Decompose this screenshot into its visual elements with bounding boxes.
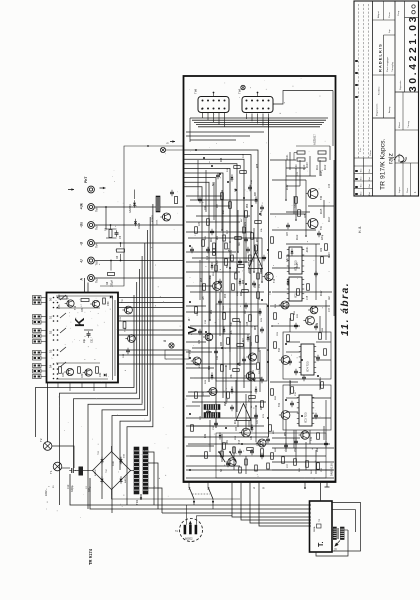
transformer TR1 secondary wires: [148, 452, 162, 513]
svg-text:KA202: KA202: [124, 476, 127, 483]
styroflex capacitors: [200, 405, 220, 421]
svg-text:51: 51: [49, 315, 53, 319]
svg-text:R A D E L K I S: R A D E L K I S: [378, 44, 383, 72]
svg-text:R21: R21: [253, 369, 255, 374]
svg-text:C21: C21: [257, 419, 259, 424]
svg-text:20p: 20p: [83, 338, 86, 343]
lamp T2: [39, 438, 52, 450]
sub-board box amplifier: [216, 304, 267, 381]
svg-text:C17: C17: [227, 229, 229, 234]
bus under connectors: [190, 118, 328, 142]
svg-text:Tb6: Tb6: [95, 207, 99, 212]
svg-text:T14: T14: [209, 274, 212, 279]
transistor T17: [238, 428, 250, 444]
Tl2 wires: [316, 482, 361, 556]
svg-text:C34: C34: [255, 283, 257, 288]
pin stubs below board: [252, 482, 330, 489]
connector Tb9: [238, 88, 274, 112]
svg-text:C65: C65: [305, 213, 307, 218]
svg-text:Ossz.: Ossz.: [407, 187, 409, 193]
transistor T12b outside board: [125, 327, 135, 342]
switch row labels S6 S1 S2 S3 S4: [49, 297, 53, 368]
svg-text:rajz: rajz: [388, 152, 395, 164]
svg-text:Tb8: Tb8: [194, 88, 198, 94]
svg-text:TR 917/K Kapcs.: TR 917/K Kapcs.: [380, 139, 387, 190]
transistor T14: [209, 274, 221, 290]
svg-text:56: 56: [49, 297, 53, 301]
wire stubs below K box: [58, 383, 106, 392]
extra wires V region: [186, 132, 264, 466]
svg-text:R38: R38: [257, 163, 259, 168]
svg-text:Dat.: Dat.: [368, 176, 371, 180]
svg-text:R79: R79: [81, 373, 84, 378]
transformer box Tl2: [310, 501, 333, 552]
svg-text:Terv.: Terv.: [361, 176, 363, 181]
svg-text:R26: R26: [243, 279, 245, 284]
opamp IC5: [247, 246, 263, 274]
svg-text:Tb9: Tb9: [238, 88, 242, 94]
svg-text:R123: R123: [329, 252, 331, 258]
svg-text:-U: -U: [80, 259, 84, 263]
svg-text:T24: T24: [278, 347, 281, 352]
svg-text:3B3A: 3B3A: [313, 526, 316, 532]
svg-text:0.47: 0.47: [287, 257, 289, 262]
svg-text:K: K: [72, 317, 87, 327]
sub-board box output stage: [216, 433, 326, 478]
svg-text:2: 2: [175, 530, 179, 532]
svg-text:R107: R107: [287, 184, 289, 190]
svg-text:C52: C52: [99, 372, 102, 377]
middle scatter resistors: [191, 166, 328, 470]
svg-text:R81: R81: [285, 431, 287, 436]
transistor T18: [279, 301, 289, 309]
transistor T26: [303, 316, 319, 327]
capacitor C12 3300u: [62, 462, 76, 492]
svg-text:C67: C67: [287, 231, 289, 236]
svg-text:-Us: -Us: [80, 222, 84, 228]
svg-text:T1: T1: [49, 470, 53, 474]
svg-text:C41: C41: [251, 435, 253, 440]
drawing number 30.4221.03: [395, 1, 419, 92]
svg-text:M: M: [200, 108, 204, 110]
terminal Tb4 -U: [80, 240, 184, 248]
transistor T16: [244, 372, 257, 382]
svg-text:H. 8.: H. 8.: [358, 226, 362, 233]
svg-text:R111: R111: [317, 164, 319, 170]
svg-text:R48: R48: [241, 291, 243, 296]
svg-text:OA85: OA85: [138, 222, 141, 229]
scan speckle noise: [46, 79, 334, 518]
svg-text:IC4 723: IC4 723: [306, 361, 310, 372]
svg-text:T22: T22: [278, 402, 281, 407]
extra wires right column: [186, 146, 334, 478]
transistor T21: [207, 388, 217, 396]
svg-text:C73: C73: [329, 183, 331, 188]
svg-text:R101: R101: [287, 154, 289, 160]
title block right lower cells: [394, 92, 419, 196]
svg-text:R64: R64: [237, 267, 239, 272]
lamp T1: [45, 462, 62, 496]
svg-text:R78: R78: [62, 372, 65, 377]
svg-text:R51: R51: [227, 439, 229, 444]
svg-text:C75: C75: [307, 295, 309, 300]
svg-text:C19: C19: [207, 255, 209, 260]
svg-text:R127: R127: [321, 290, 323, 296]
svg-text:220µ: 220µ: [322, 234, 324, 240]
zener and resistors near regulators: [287, 310, 328, 447]
svg-text:T2: T2: [39, 438, 43, 442]
transformer TR1: [131, 447, 149, 505]
connector Tb9 pin wires: [241, 85, 333, 146]
wires terminals to power section: [85, 278, 89, 293]
svg-text:C26: C26: [251, 259, 253, 264]
transistor T25: [226, 458, 237, 466]
K box bottom components: [56, 363, 108, 379]
svg-text:Csop.: Csop.: [398, 10, 400, 16]
extra bottom strip components: [221, 439, 270, 473]
svg-text:Terv.: Terv.: [361, 191, 363, 196]
svg-text:R68: R68: [255, 325, 257, 330]
svg-text:C13: C13: [213, 411, 215, 416]
svg-text:Tb3: Tb3: [95, 260, 99, 265]
test point 8: [162, 339, 189, 359]
test point J5: [160, 140, 183, 152]
svg-text:C69: C69: [321, 247, 323, 252]
IC4 723: [301, 344, 314, 375]
svg-text:R54: R54: [247, 203, 249, 208]
svg-text:R27: R27: [211, 237, 213, 242]
svg-text:Tömeg: Tömeg: [408, 120, 410, 128]
svg-text:C38: C38: [247, 321, 249, 326]
terminal Tb6 +Uk: [80, 203, 184, 212]
svg-text:+Uk: +Uk: [80, 203, 84, 209]
svg-text:2240: 2240: [113, 460, 115, 466]
svg-text:C12: C12: [67, 484, 70, 489]
svg-text:Kezdősz.: Kezdősz.: [379, 86, 381, 95]
bottom wire bus: [70, 474, 311, 513]
svg-text:Csere: Csere: [369, 149, 372, 156]
svg-text:220V∼: 220V∼: [45, 488, 48, 496]
svg-text:Rajzszám: Rajzszám: [400, 80, 402, 90]
V section divider: [268, 118, 270, 437]
connector Tb8 pin wires: [203, 92, 225, 127]
svg-text:R49: R49: [205, 433, 207, 438]
svg-text:52: 52: [49, 330, 53, 334]
power transistor T31: [306, 219, 323, 231]
extra label scatter 2: [199, 153, 319, 452]
svg-text:R39: R39: [245, 221, 247, 226]
svg-text:11. ábra.: 11. ábra.: [340, 282, 351, 336]
svg-text:R115: R115: [321, 208, 323, 214]
meter D8 100uA: [106, 260, 130, 287]
svg-text:T31: T31: [320, 225, 323, 230]
svg-text:V: V: [186, 326, 200, 334]
svg-text:Megnevezés: Megnevezés: [377, 103, 379, 116]
svg-text:54|B9136: 54|B9136: [330, 463, 334, 476]
terminal Tb2 A: [80, 275, 184, 283]
svg-text:Tb4: Tb4: [95, 243, 99, 248]
svg-text:C41: C41: [200, 415, 202, 420]
svg-text:R89: R89: [209, 365, 211, 370]
transistor T27: [203, 333, 213, 341]
middle scatter capacitors: [190, 173, 320, 455]
svg-text:R35: R35: [261, 405, 263, 410]
svg-text:R14: R14: [221, 157, 223, 162]
svg-text:F.sz.: F.sz.: [360, 147, 362, 152]
transistor T13: [189, 349, 201, 365]
svg-text:R43: R43: [221, 341, 223, 346]
terminal PhT: [68, 176, 106, 193]
K box top components: [56, 295, 112, 313]
svg-text:C63: C63: [203, 391, 205, 396]
transistor T22: [278, 402, 290, 419]
svg-text:IC3 723: IC3 723: [304, 412, 308, 423]
svg-text:R98: R98: [201, 277, 203, 282]
middle scatter diodes: [211, 174, 294, 439]
svg-text:T17: T17: [238, 439, 241, 444]
svg-text:R63: R63: [217, 235, 219, 240]
svg-text:Tömeg kg: Tömeg kg: [392, 61, 394, 72]
wire lamp row: [62, 467, 93, 471]
K box internal verticals: [113, 296, 116, 380]
capacitor C48 outside board: [123, 348, 130, 358]
svg-text:C5V1: C5V1: [157, 219, 159, 225]
connector NGE2: [175, 519, 203, 542]
svg-text:30.4221.03: 30.4221.03: [408, 14, 419, 92]
svg-text:PhT: PhT: [84, 176, 88, 183]
svg-text:R47: R47: [255, 191, 257, 196]
bus vertical bundle below terminals: [36, 204, 153, 513]
svg-text:R109: R109: [296, 164, 298, 170]
component labels scatter: [197, 167, 323, 474]
capacitor C60 220u: [317, 231, 324, 240]
svg-text:Méret: Méret: [398, 122, 401, 128]
svg-text:-U: -U: [80, 241, 84, 245]
inner mesh wires: [186, 160, 332, 474]
svg-text:C46: C46: [261, 267, 263, 272]
power transistor T30 ASZ1617: [306, 134, 323, 200]
transistor T24: [278, 347, 290, 364]
IC2 723: [289, 277, 302, 301]
resistor cluster top right: [294, 146, 330, 170]
title block frame: [354, 1, 419, 196]
bus upper-left staircase: [184, 150, 259, 430]
bus K-box to main board: [118, 298, 184, 365]
svg-text:NGE2: NGE2: [185, 537, 193, 541]
svg-text:BZX83: BZX83: [152, 215, 154, 222]
svg-text:TR 9174: TR 9174: [88, 548, 93, 565]
svg-text:Lapsz.: Lapsz.: [399, 186, 401, 193]
svg-text:R125: R125: [297, 262, 299, 268]
svg-text:T.: T.: [318, 542, 325, 548]
svg-text:R95: R95: [225, 401, 227, 406]
sub-board box regulator 1: [283, 332, 331, 379]
extra label scatter right column: [287, 154, 331, 312]
svg-text:T30: T30: [320, 195, 323, 200]
svg-text:Pont. megjegyz.: Pont. megjegyz.: [386, 56, 389, 72]
svg-text:IC5: IC5: [247, 268, 251, 273]
svg-text:Állapot: Állapot: [377, 11, 380, 18]
svg-text:T13: T13: [189, 349, 192, 354]
svg-text:C50: C50: [107, 301, 110, 306]
svg-text:R16: R16: [235, 419, 237, 424]
diode D2 KA202/1: [129, 190, 136, 214]
resistor R5 on -U line: [116, 242, 125, 261]
resistor R6 and capacitor C5 on -Us line: [105, 206, 123, 239]
extra middle components: [206, 227, 259, 287]
transistor T28: [308, 306, 318, 314]
svg-text:T20: T20: [310, 436, 313, 441]
resistor R70 outside board: [120, 316, 126, 328]
diode D3 OA85: [134, 219, 141, 229]
transistor T11 outside board: [122, 298, 132, 313]
svg-text:C16: C16: [243, 153, 245, 158]
bridge rectifier: [93, 446, 131, 495]
svg-text:R112: R112: [325, 164, 327, 170]
capacitor C51: [83, 330, 94, 343]
svg-text:R105: R105: [321, 170, 323, 176]
svg-text:R103: R103: [307, 162, 309, 168]
connector Tb8: [194, 88, 230, 112]
svg-text:R53: R53: [229, 247, 231, 252]
svg-text:KA202|1: KA202|1: [129, 203, 132, 213]
choke L1 390u: [75, 467, 93, 493]
svg-text:M: M: [244, 108, 248, 110]
sub-board box regulator 2: [283, 385, 331, 430]
main board outline: [184, 76, 336, 482]
terminal Tb3 -U: [80, 257, 184, 265]
corner holes: [412, 5, 415, 8]
svg-text:220k: 220k: [261, 210, 263, 216]
IC3 723: [299, 395, 312, 426]
svg-text:KA202: KA202: [94, 469, 97, 476]
opamp IC6: [234, 404, 251, 432]
svg-text:Dat.: Dat.: [368, 168, 371, 172]
bottom strip switch contacts: [218, 451, 236, 472]
svg-text:C51: C51: [91, 338, 94, 343]
revision table: [354, 4, 373, 196]
K box pin dots: [53, 297, 59, 380]
transistor T20: [299, 431, 313, 441]
svg-text:Terv.: Terv.: [361, 168, 363, 173]
svg-text:R119: R119: [297, 234, 299, 240]
left edge cluster diode row: [152, 190, 178, 225]
K box switch levers: [60, 295, 66, 367]
svg-text:Tb2: Tb2: [95, 278, 99, 283]
svg-text:Dat.: Dat.: [368, 191, 371, 195]
terminal Tb5 -Us: [80, 222, 184, 230]
svg-text:IC6: IC6: [234, 426, 238, 431]
svg-text:54: 54: [49, 364, 53, 368]
svg-text:53: 53: [49, 349, 53, 353]
extra labels middle: [211, 221, 261, 296]
transistor T23: [246, 353, 256, 361]
relay switch S4: [188, 482, 215, 509]
svg-text:T19: T19: [74, 305, 77, 310]
IC1 723: [289, 247, 302, 274]
transistor T15: [263, 272, 276, 283]
svg-text:30.M.E.: 30.M.E.: [397, 153, 401, 162]
svg-text:R129: R129: [287, 302, 289, 308]
svg-text:Tb5: Tb5: [95, 225, 99, 230]
svg-text:R110: R110: [304, 164, 306, 170]
svg-text:R73: R73: [225, 293, 227, 298]
svg-text:Anyag: Anyag: [388, 106, 391, 113]
lamp T2 wires: [48, 383, 74, 469]
svg-text:TR1: TR1: [135, 499, 139, 505]
svg-text:C29: C29: [199, 339, 201, 344]
transformer Tl2 winding: [333, 527, 344, 552]
title block center cells: [373, 1, 396, 118]
svg-text:R117: R117: [329, 216, 331, 222]
svg-text:Csere: Csere: [388, 11, 391, 18]
K box left flag labels: [33, 296, 47, 379]
svg-text:ASZ1617: ASZ1617: [313, 134, 317, 145]
wire left drop: [100, 146, 184, 286]
svg-text:Terv.: Terv.: [361, 183, 363, 188]
svg-text:R74: R74: [81, 307, 84, 312]
svg-text:Dat.: Dat.: [368, 183, 371, 187]
svg-text:C77: C77: [329, 307, 331, 312]
svg-text:R59: R59: [211, 309, 213, 314]
NGE2 riser wires: [187, 505, 233, 525]
K board outline: [47, 293, 119, 383]
svg-text:C55: C55: [259, 347, 261, 352]
svg-text:R121: R121: [307, 246, 309, 252]
svg-text:R31: R31: [257, 237, 259, 242]
extra junction dots: [189, 149, 319, 471]
svg-text:T15: T15: [273, 278, 276, 283]
svg-text:C71: C71: [297, 171, 299, 176]
wires board bottom to Tl2: [232, 482, 311, 526]
